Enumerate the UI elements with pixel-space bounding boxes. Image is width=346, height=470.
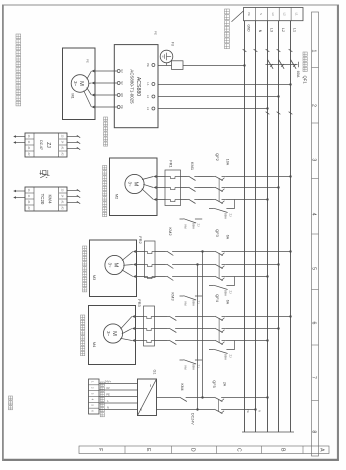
svg-text:6: 6 — [91, 410, 95, 412]
svg-text:M1: M1 — [71, 93, 76, 99]
svg-text:2A: 2A — [223, 382, 227, 387]
svg-text:3~: 3~ — [128, 182, 133, 187]
svg-text:E: E — [145, 448, 151, 452]
svg-text:6A: 6A — [226, 235, 230, 240]
svg-text:A1: A1 — [27, 147, 30, 151]
svg-text:GND: GND — [246, 24, 250, 32]
svg-text:M3: M3 — [92, 275, 97, 281]
svg-text:3: 3 — [311, 158, 317, 161]
svg-text:ZJ: ZJ — [229, 291, 233, 295]
svg-text:QF1: QF1 — [303, 76, 308, 85]
svg-text:M: M — [111, 331, 117, 336]
svg-text:KM: KM — [184, 224, 188, 229]
svg-text:6A: 6A — [226, 300, 230, 305]
svg-text:24V+: 24V+ — [105, 379, 112, 383]
svg-text:14: 14 — [60, 141, 63, 144]
svg-text:L2: L2 — [281, 28, 285, 32]
svg-text:5: 5 — [311, 267, 317, 270]
svg-text:A2: A2 — [27, 207, 30, 211]
svg-text:KM2: KM2 — [168, 227, 173, 236]
svg-text:0V: 0V — [106, 386, 109, 390]
svg-text:L1: L1 — [146, 82, 150, 86]
svg-text:B8/H: B8/H — [192, 223, 196, 229]
svg-text:PE: PE — [120, 105, 124, 109]
svg-text:PE: PE — [247, 12, 251, 16]
svg-text:13: 13 — [27, 135, 30, 138]
svg-text:TC20: TC20 — [40, 194, 45, 205]
svg-text:M: M — [113, 263, 119, 268]
svg-text:FR2: FR2 — [138, 236, 143, 244]
svg-text:ZJ: ZJ — [197, 224, 201, 228]
svg-text:M2: M2 — [115, 194, 120, 200]
svg-text:D: D — [190, 448, 196, 452]
svg-text:60A: 60A — [296, 71, 300, 78]
svg-text:N: N — [258, 410, 262, 412]
svg-text:13: 13 — [60, 135, 63, 138]
svg-text:L1: L1 — [295, 13, 299, 16]
svg-text:7: 7 — [311, 376, 317, 379]
svg-text:A1: A1 — [27, 201, 30, 205]
svg-text:13: 13 — [60, 189, 63, 192]
svg-text:8: 8 — [311, 430, 317, 433]
svg-text:KM1: KM1 — [190, 162, 195, 171]
svg-text:N: N — [259, 13, 263, 15]
svg-text:13: 13 — [27, 189, 30, 192]
svg-text:6: 6 — [311, 322, 317, 325]
svg-text:14: 14 — [27, 141, 30, 144]
svg-text:B8/H: B8/H — [224, 290, 228, 296]
svg-text:4: 4 — [91, 399, 95, 401]
svg-text:QF2: QF2 — [215, 153, 220, 162]
svg-text:ZJ: ZJ — [229, 214, 233, 218]
svg-text:PE: PE — [146, 63, 150, 67]
svg-text:L: L — [107, 399, 109, 403]
svg-text:ZJ: ZJ — [197, 301, 201, 305]
svg-text:QF5: QF5 — [212, 380, 216, 387]
svg-text:KM3: KM3 — [171, 292, 176, 301]
svg-text:L3: L3 — [269, 28, 273, 32]
svg-text:14: 14 — [27, 195, 30, 198]
svg-text:1: 1 — [91, 381, 95, 383]
svg-text:A1: A1 — [60, 201, 63, 205]
svg-text:L2: L2 — [283, 13, 287, 16]
svg-text:C: C — [236, 448, 242, 452]
svg-text:M4: M4 — [92, 342, 97, 348]
svg-text:10A: 10A — [226, 159, 230, 166]
svg-text:=: = — [139, 408, 144, 411]
svg-text:3: 3 — [91, 393, 95, 395]
svg-text:G1: G1 — [153, 369, 157, 374]
svg-text:5: 5 — [91, 404, 95, 406]
svg-text:QF3: QF3 — [215, 229, 220, 238]
svg-text:L3: L3 — [271, 13, 275, 16]
svg-text:3~: 3~ — [106, 331, 111, 336]
svg-text:KM4: KM4 — [48, 194, 53, 204]
svg-text:L2: L2 — [146, 95, 150, 99]
svg-text:~: ~ — [147, 384, 153, 387]
svg-text:A2: A2 — [60, 207, 63, 211]
svg-text:M: M — [78, 81, 84, 86]
svg-text:1: 1 — [311, 50, 317, 53]
svg-text:F: F — [97, 448, 103, 451]
svg-text:PE: PE — [106, 392, 110, 396]
svg-text:KM: KM — [184, 365, 188, 370]
svg-text:2: 2 — [311, 104, 317, 107]
svg-text:A1: A1 — [60, 147, 63, 151]
svg-text:FR1: FR1 — [169, 160, 174, 168]
svg-text:A: A — [319, 448, 325, 452]
svg-text:PE: PE — [86, 59, 90, 63]
svg-text:14: 14 — [60, 195, 63, 198]
svg-text:N: N — [258, 30, 262, 33]
svg-text:M: M — [133, 182, 139, 187]
svg-text:ZJ: ZJ — [197, 365, 201, 369]
svg-text:ZJ: ZJ — [229, 355, 233, 359]
svg-text:W2: W2 — [120, 93, 124, 98]
svg-text:QF4: QF4 — [215, 294, 220, 303]
svg-text:V2: V2 — [120, 81, 124, 85]
svg-text:ACS880: ACS880 — [135, 77, 141, 96]
svg-text:4: 4 — [311, 213, 317, 216]
svg-text:B8/H: B8/H — [192, 364, 196, 370]
svg-text:KM4: KM4 — [180, 384, 184, 391]
svg-text:A2: A2 — [27, 153, 30, 157]
svg-text:ACS880-T1-0025: ACS880-T1-0025 — [130, 69, 135, 104]
svg-text:FU: FU — [171, 42, 175, 47]
svg-text:3~: 3~ — [73, 81, 78, 86]
svg-text:U2: U2 — [120, 69, 124, 73]
svg-text:N: N — [107, 405, 109, 409]
svg-text:L3: L3 — [146, 107, 150, 111]
svg-text:A2: A2 — [60, 153, 63, 157]
svg-text:PE: PE — [154, 31, 158, 35]
svg-text:B8/H: B8/H — [224, 213, 228, 219]
svg-text:DC24V: DC24V — [191, 413, 195, 425]
svg-text:FR3: FR3 — [137, 299, 142, 307]
svg-text:B8/H: B8/H — [192, 300, 196, 306]
svg-text:B8/H: B8/H — [224, 354, 228, 360]
svg-text:KM: KM — [184, 301, 188, 306]
svg-text:B: B — [280, 448, 286, 452]
svg-text:3~: 3~ — [108, 263, 113, 268]
svg-text:ZJ: ZJ — [45, 142, 51, 148]
svg-text:2: 2 — [91, 387, 95, 389]
svg-text:DZ-47: DZ-47 — [39, 140, 43, 150]
svg-text:L1: L1 — [292, 28, 296, 32]
